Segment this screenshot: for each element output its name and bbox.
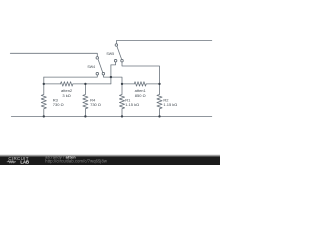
svg-text:730 Ω: 730 Ω bbox=[90, 102, 101, 107]
resistor atten2 3 kOhm zigzag bbox=[61, 82, 73, 86]
wire output top right bbox=[116, 41, 211, 44]
resistor R3 column and zigzag bbox=[41, 77, 46, 116]
node dot R2 column/atten1 wire bbox=[158, 83, 160, 85]
svg-text:1.15 kΩ: 1.15 kΩ bbox=[125, 102, 139, 107]
svg-text:LAB: LAB bbox=[20, 159, 29, 164]
node dot rail/R2 bbox=[158, 115, 160, 117]
switch SW5 terminal bottom-left bbox=[114, 59, 117, 62]
svg-text:850 Ω: 850 Ω bbox=[135, 93, 146, 98]
switch SW4 terminal bottom-left bbox=[96, 72, 99, 75]
svg-text:SW4: SW4 bbox=[87, 65, 95, 69]
wire atten1 left segment bbox=[122, 83, 134, 85]
wire bottom rail bbox=[11, 115, 212, 117]
resistor R4 column and zigzag bbox=[83, 84, 88, 117]
logo resistor squiggle bbox=[7, 161, 16, 163]
node dot rail/R4 bbox=[84, 115, 86, 117]
resistor R2 column and zigzag bbox=[157, 84, 162, 117]
wire atten1 right segment bbox=[146, 83, 159, 85]
wire SW5 throw-right to R2 column bbox=[122, 62, 160, 84]
node dot R1 column/atten1 wire bbox=[121, 83, 123, 85]
switch SW5 terminal top bbox=[115, 44, 118, 47]
switch SW4 terminal top bbox=[96, 57, 99, 60]
resistor atten1 850 Ohm zigzag bbox=[134, 82, 146, 86]
wire line2 left segment bbox=[44, 83, 61, 85]
svg-text:3 kΩ: 3 kΩ bbox=[62, 93, 70, 98]
switch SW4 terminal bottom-right bbox=[102, 72, 105, 75]
node dot line2/R3 column bbox=[43, 83, 45, 85]
node dot line2/R4 bbox=[84, 83, 86, 85]
wire SW4 throw-left to line1 bbox=[44, 75, 98, 77]
switch SW5 terminal bottom-right bbox=[121, 59, 124, 62]
svg-text:1.15 kΩ: 1.15 kΩ bbox=[163, 102, 177, 107]
resistor R1 column and zigzag bbox=[119, 84, 124, 117]
wire line2 right segment bbox=[73, 83, 111, 85]
switch SW4 lever bbox=[98, 60, 103, 73]
node dot rail/R1 bbox=[121, 115, 123, 117]
wire input left bbox=[10, 53, 97, 56]
wire node-Y vertical V1 bbox=[110, 65, 112, 84]
wire SW5 throw-left to V1 bbox=[111, 62, 116, 65]
svg-text:730 Ω: 730 Ω bbox=[53, 102, 64, 107]
svg-text:http://circuitlab.com/c/7wq65j: http://circuitlab.com/c/7wq65j8w bbox=[45, 159, 107, 164]
svg-text:SW5: SW5 bbox=[106, 52, 114, 56]
switch SW5 lever bbox=[117, 47, 121, 59]
node dot rail/R3 bbox=[43, 115, 45, 117]
wire SW4 throw-right to R1 column bbox=[103, 75, 122, 84]
node dot V1/SW4-right wire bbox=[110, 76, 112, 78]
